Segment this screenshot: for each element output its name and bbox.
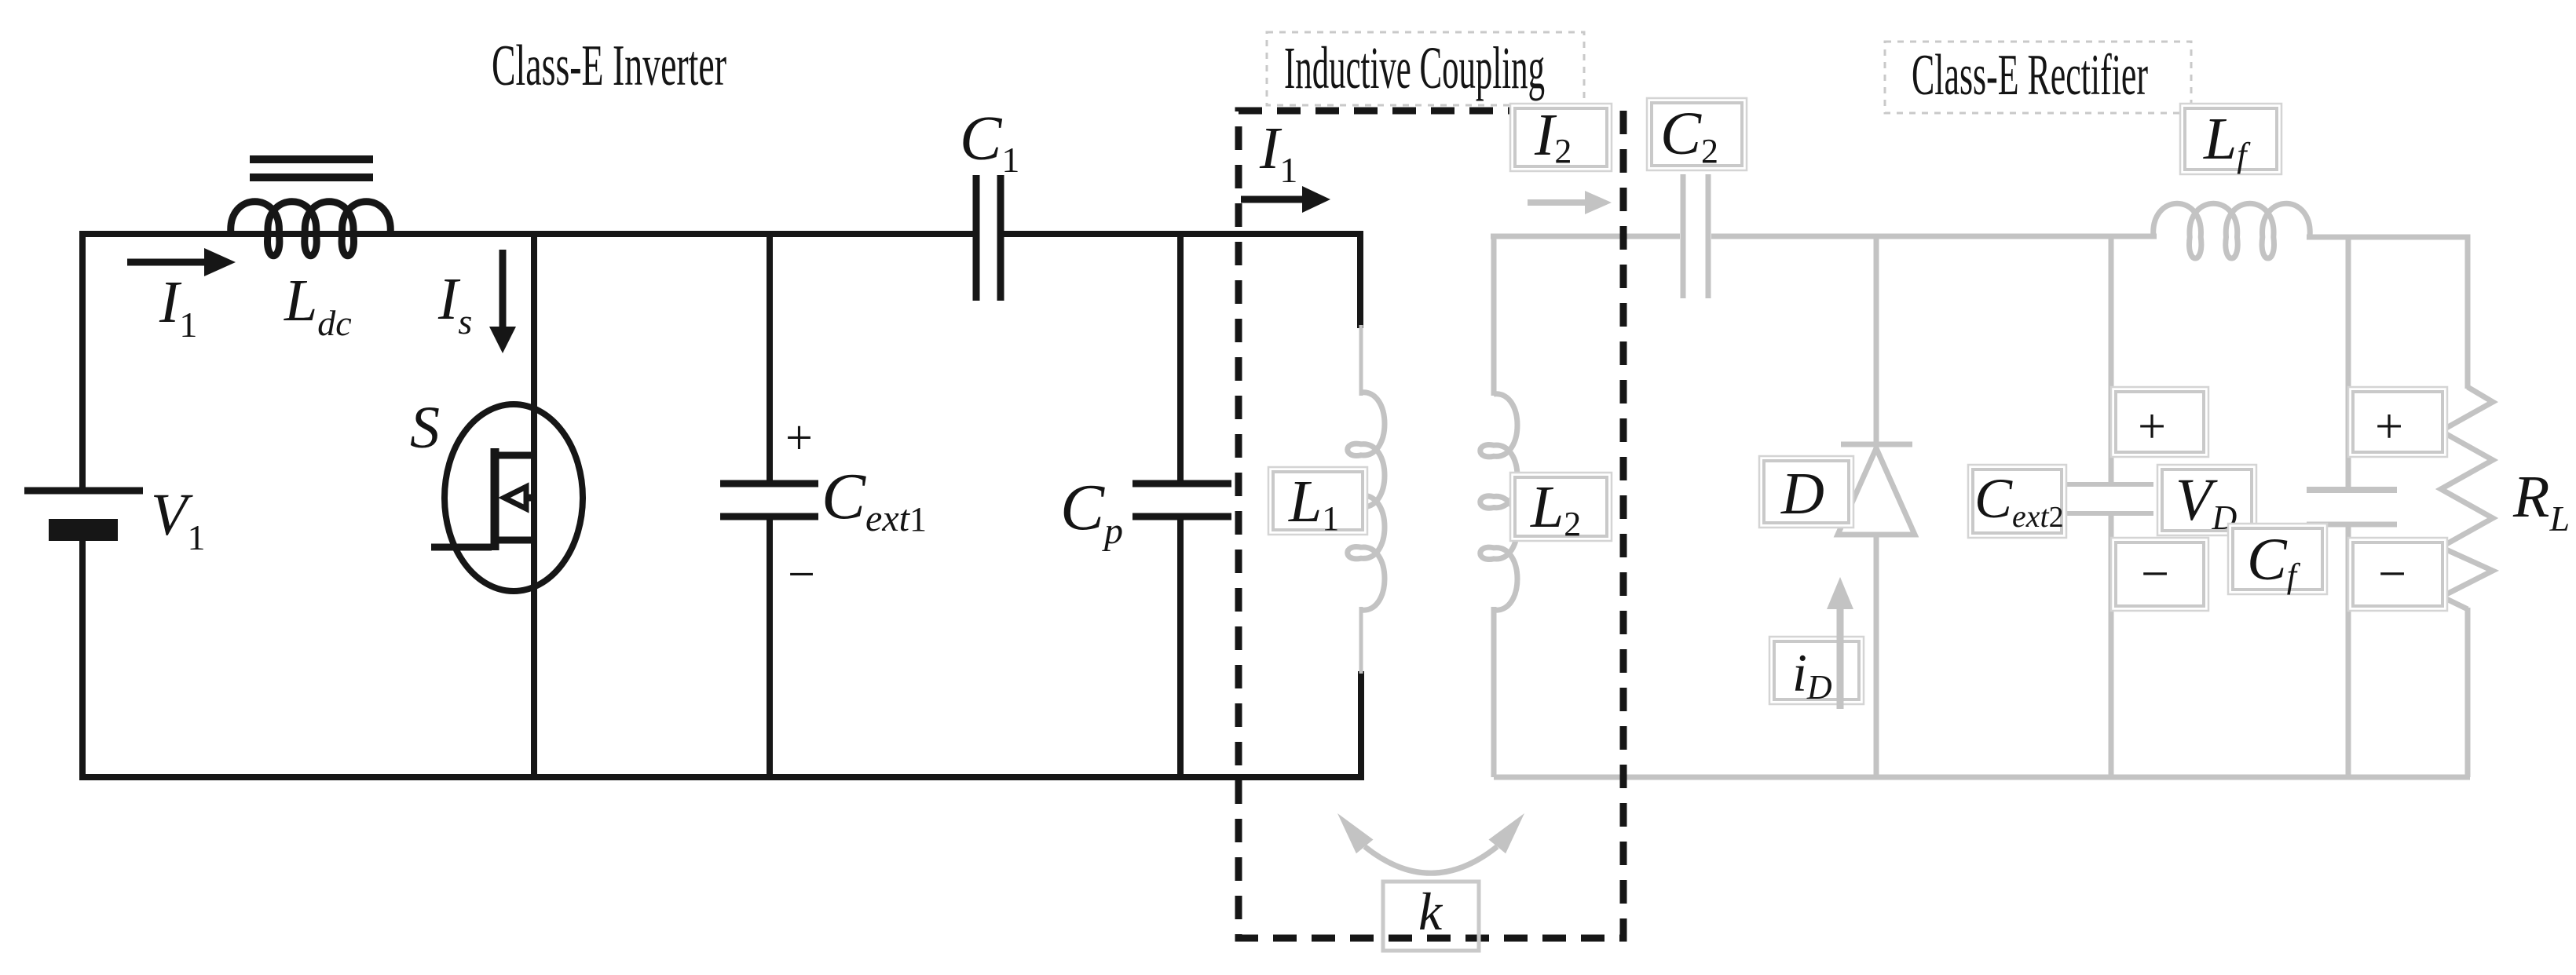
node I2 label box: [1510, 104, 1612, 171]
capacitor C1: [976, 175, 1001, 301]
svg-text:Class-E Rectifier: Class-E Rectifier: [1912, 43, 2148, 108]
minus box (RL): [2348, 538, 2447, 611]
svg-text:−: −: [2141, 546, 2169, 601]
capacitor Cext2 label box: [1968, 465, 2066, 538]
wire: Cf branch top: [2346, 236, 2351, 490]
wire: Cp branch top: [1177, 234, 1184, 484]
wire: L2 top gray: [1491, 236, 1497, 396]
battery V1: [24, 491, 143, 541]
plus box (VD): [2111, 387, 2208, 457]
svg-text:Inductive Coupling: Inductive Coupling: [1284, 35, 1545, 101]
arrow iD: [1827, 577, 1853, 709]
svg-text:D: D: [1780, 461, 1824, 527]
capacitor C2 label box: [1647, 98, 1747, 170]
wire: L2 bottom gray: [1491, 607, 1497, 777]
inductor Lf: [2153, 203, 2311, 258]
wire: diode branch: [1874, 236, 1879, 777]
wire: Cext2 branch bottom: [2109, 513, 2114, 777]
coupling k label box: [1383, 882, 1479, 951]
wire: RL bottom link: [2465, 608, 2471, 777]
capacitor C2: [1683, 174, 1708, 298]
svg-text:S: S: [410, 395, 440, 461]
wire: Cext1 branch top: [767, 234, 773, 484]
wire: L1 link top gray: [1359, 325, 1363, 396]
wire: Cext2 branch top: [2109, 236, 2114, 484]
title box: Inductive Coupling: [1267, 32, 1584, 105]
inductor L1: [1348, 393, 1385, 610]
inductor L1 label box: [1268, 467, 1367, 535]
capacitor Cf: [2307, 490, 2397, 524]
capacitor Cf label box: [2228, 524, 2327, 594]
inductor L2: [1480, 394, 1517, 610]
arrow I2: [1528, 191, 1612, 214]
wire: L1 bottom gray: [1359, 607, 1363, 674]
wire: L1 bottom black segment: [1358, 671, 1364, 777]
svg-text:+: +: [2375, 398, 2403, 454]
svg-text:+: +: [785, 411, 813, 465]
inductor Lf label box: [2180, 104, 2281, 174]
svg-text:−: −: [788, 548, 815, 601]
capacitor Cext1: [720, 484, 818, 517]
transistor S (MOSFET): [431, 404, 583, 591]
resistor RL: [2441, 387, 2493, 609]
core bars of Ldc: [250, 159, 373, 177]
svg-text:Class-E Inverter: Class-E Inverter: [492, 34, 726, 98]
plus box (RL): [2348, 387, 2447, 457]
wire: top rail right of C1: [1004, 234, 1360, 328]
minus box (VD): [2111, 538, 2208, 611]
current iD label box: [1769, 637, 1864, 704]
wire: gray top rail C2 to Lf: [1711, 234, 2157, 239]
wire: Cp branch bottom: [1177, 517, 1184, 777]
diode D symbol: [1838, 444, 1915, 535]
wire: gray top rail L2 to C2: [1491, 234, 1680, 239]
wire: gray bottom rail: [1494, 775, 2470, 780]
wire: switch branch: [531, 234, 537, 777]
svg-text:k: k: [1418, 882, 1444, 941]
title box: Class-E Rectifier: [1885, 42, 2191, 113]
inductive coupling dashed box: [1239, 111, 1623, 938]
inductor Ldc: [231, 202, 391, 256]
arrow Is (switch current): [489, 250, 516, 353]
wire: Cext1 branch bottom: [767, 517, 773, 777]
capacitor Cext2: [2066, 484, 2153, 513]
capacitor Cp: [1132, 484, 1231, 517]
wire: Cf branch bottom: [2346, 524, 2351, 777]
label VD box: [2157, 465, 2256, 535]
diode D label box: [1759, 456, 1853, 528]
wire: gray top rail Lf to RL corner: [2307, 237, 2468, 389]
wire: top rail left: [82, 234, 973, 487]
arrow I1 (coupling primary current): [1241, 186, 1330, 213]
svg-text:−: −: [2378, 546, 2406, 601]
wire: bottom rail black: [82, 541, 1364, 777]
coupling k double arrow: [1337, 813, 1524, 873]
svg-text:+: +: [2138, 398, 2166, 454]
inductor L2 label box: [1510, 473, 1612, 541]
arrow I1 (input current): [127, 248, 236, 276]
